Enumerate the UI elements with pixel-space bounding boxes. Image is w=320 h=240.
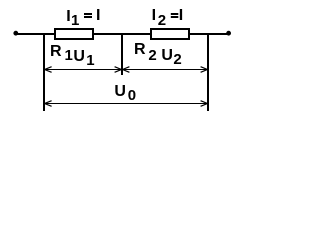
node B	[226, 31, 231, 36]
svg-text:I: I	[152, 7, 156, 24]
svg-text:U: U	[114, 83, 126, 100]
svg-text:0: 0	[128, 87, 136, 104]
label I2 = I	[152, 7, 184, 29]
voltage arrow U2	[123, 67, 208, 73]
label R1	[50, 43, 73, 64]
svg-text:2: 2	[148, 47, 156, 64]
svg-text:U: U	[73, 48, 85, 65]
label U0	[114, 83, 136, 104]
wire (right reference dropline)	[207, 33, 209, 111]
svg-text:U: U	[161, 47, 173, 64]
svg-text:2: 2	[173, 51, 181, 68]
wire (left reference dropline)	[43, 33, 45, 111]
svg-text:I: I	[179, 7, 183, 24]
voltage arrow U1	[45, 67, 122, 73]
voltage arrow U0	[45, 101, 208, 107]
svg-text:I: I	[96, 7, 100, 24]
svg-text:1: 1	[71, 12, 79, 29]
label R2	[134, 41, 157, 64]
label U2	[161, 47, 181, 68]
svg-text:2: 2	[158, 12, 166, 29]
svg-text:R: R	[134, 41, 146, 58]
resistor R1	[55, 29, 93, 39]
wire (middle reference dropline)	[121, 33, 123, 75]
node A	[13, 31, 18, 36]
label I1 = I	[66, 7, 100, 29]
svg-text:1: 1	[65, 47, 73, 64]
resistor R2	[151, 29, 189, 39]
wire	[16, 33, 229, 35]
svg-text:R: R	[50, 43, 62, 60]
svg-text:1: 1	[86, 52, 94, 69]
label U1	[73, 48, 94, 69]
